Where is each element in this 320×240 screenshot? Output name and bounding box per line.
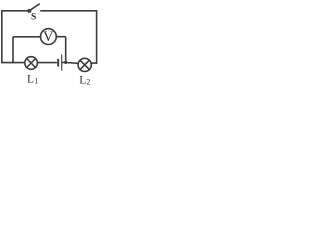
node B junction xyxy=(64,61,67,64)
lamp L2 xyxy=(78,58,91,71)
svg-text:L: L xyxy=(27,74,34,86)
svg-text:S: S xyxy=(31,13,36,23)
lamp L1 xyxy=(25,57,38,70)
wire voltmeter left vertical xyxy=(12,38,14,63)
battery negative plate (short thick) xyxy=(57,60,59,66)
wire left vertical xyxy=(1,11,3,63)
op-amp voltmeter U1 circle xyxy=(41,29,57,45)
switch S blade xyxy=(31,4,40,10)
wire bottom-right to lamp L2 xyxy=(91,62,96,64)
svg-text:1: 1 xyxy=(34,76,38,85)
wire voltmeter right vertical xyxy=(65,37,66,63)
wire voltmeter top-left segment xyxy=(13,37,41,38)
svg-text:2: 2 xyxy=(86,77,90,86)
wire lamp L2 to node B xyxy=(66,62,78,65)
battery positive plate (long thin) xyxy=(61,55,63,70)
node A junction xyxy=(12,61,14,63)
wire right vertical xyxy=(96,11,98,63)
wire lamp L1 to battery xyxy=(37,62,56,64)
svg-text:V: V xyxy=(43,29,54,45)
wire battery to node B xyxy=(62,61,65,63)
wire bottom-left segment xyxy=(2,62,25,64)
wire voltmeter top-right segment xyxy=(56,36,64,38)
switch S pivot xyxy=(28,10,30,12)
wire top-right segment xyxy=(41,10,97,12)
wire top-left segment xyxy=(2,10,29,12)
